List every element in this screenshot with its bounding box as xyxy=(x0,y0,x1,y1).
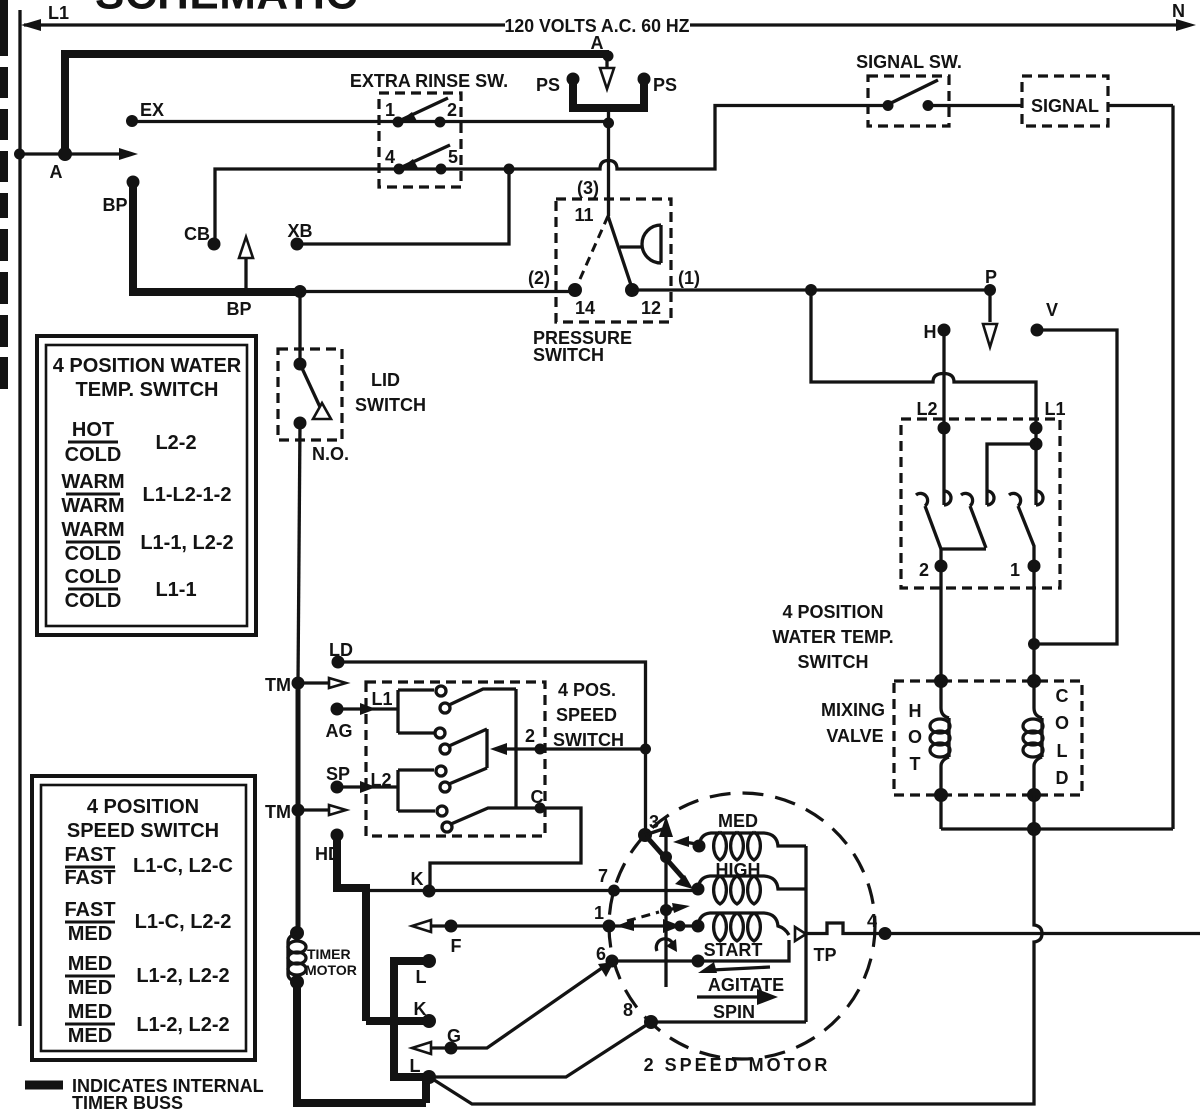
arrow spin xyxy=(697,995,760,998)
svg-text:SP: SP xyxy=(326,764,350,784)
svg-text:L1: L1 xyxy=(48,3,69,23)
wire contact 12 to P xyxy=(632,288,990,291)
speed sw blade row3 xyxy=(449,768,487,784)
svg-text:K: K xyxy=(414,999,427,1019)
wire lid switch stem xyxy=(298,292,301,365)
lid switch bottom contact xyxy=(294,417,307,430)
terminal V xyxy=(1031,324,1044,337)
node rinse output junction xyxy=(504,164,515,175)
terminal BP xyxy=(127,176,140,189)
pressure switch blade 11-12 xyxy=(608,216,632,288)
wire L1 tap jog xyxy=(987,444,1036,505)
terminal L2 xyxy=(938,422,951,435)
svg-text:MED: MED xyxy=(68,1001,112,1023)
svg-text:6: 6 xyxy=(596,944,606,964)
node C terminal xyxy=(535,803,546,814)
svg-text:12: 12 xyxy=(641,298,661,318)
svg-text:K: K xyxy=(411,869,424,889)
svg-text:WARM: WARM xyxy=(61,495,124,517)
wire terminal 2 bar xyxy=(941,549,986,566)
node lid switch junction xyxy=(294,285,307,298)
svg-text:SWITCH: SWITCH xyxy=(355,395,426,415)
svg-text:PS: PS xyxy=(653,75,677,95)
node start return xyxy=(692,955,705,968)
svg-text:MED: MED xyxy=(718,811,758,831)
terminal HIGH xyxy=(692,883,705,896)
svg-text:CB: CB xyxy=(184,224,210,244)
svg-text:MED: MED xyxy=(68,1025,112,1047)
svg-text:P: P xyxy=(985,267,997,287)
svg-text:SPIN: SPIN xyxy=(713,1002,755,1022)
wire node 8 line xyxy=(651,1020,806,1023)
arrow TM upper (open) xyxy=(329,678,346,688)
svg-text:V: V xyxy=(1046,300,1058,320)
svg-text:L2: L2 xyxy=(916,399,937,419)
wire C to K xyxy=(430,808,581,891)
node timer motor bottom xyxy=(290,975,304,989)
svg-text:SCHEMATIC: SCHEMATIC xyxy=(95,0,358,19)
svg-text:2 SPEED MOTOR: 2 SPEED MOTOR xyxy=(644,1055,831,1075)
svg-text:N.O.: N.O. xyxy=(312,444,349,464)
box speed switch xyxy=(366,682,545,836)
arrow L1 end xyxy=(21,19,41,31)
svg-text:MED: MED xyxy=(68,953,112,975)
thick buss PS U-shape xyxy=(569,78,644,112)
svg-text:L: L xyxy=(410,1056,421,1076)
wire signal sw to signal xyxy=(928,104,1022,107)
linkage dashes xyxy=(627,912,659,921)
node start tap xyxy=(675,921,686,932)
node shaft lower xyxy=(660,904,672,916)
svg-text:COLD: COLD xyxy=(65,590,122,612)
svg-text:EXTRA RINSE SW.: EXTRA RINSE SW. xyxy=(350,71,508,91)
rotation hook xyxy=(656,939,673,951)
svg-text:8: 8 xyxy=(623,1000,633,1020)
node shaft upper xyxy=(660,851,672,863)
arrow F (open, left) xyxy=(412,920,431,932)
wire F line to start xyxy=(420,924,698,927)
svg-text:WATER TEMP.: WATER TEMP. xyxy=(772,627,893,647)
node PS-EX junction xyxy=(603,118,614,129)
svg-text:F: F xyxy=(451,936,462,956)
svg-text:1: 1 xyxy=(1010,560,1020,580)
blade signal sw xyxy=(891,80,938,103)
svg-text:G: G xyxy=(447,1026,461,1046)
thick buss terminal rail xyxy=(366,957,432,1077)
svg-text:SWITCH: SWITCH xyxy=(798,652,869,672)
svg-text:L1-1, L2-2: L1-1, L2-2 xyxy=(140,532,233,554)
terminal L lower xyxy=(422,1070,436,1084)
svg-text:L1-L2-1-2: L1-L2-1-2 xyxy=(143,484,232,506)
node 1 xyxy=(603,920,616,933)
coil timer motor xyxy=(288,933,297,982)
node TM lower xyxy=(292,804,305,817)
node 8 xyxy=(644,1015,658,1029)
wire L2 pole xyxy=(942,428,945,505)
node water temp branch xyxy=(805,284,817,296)
node 7 xyxy=(608,885,620,897)
svg-text:11: 11 xyxy=(574,205,593,225)
wire V to right and down xyxy=(1034,330,1117,644)
node timer motor top xyxy=(290,926,304,940)
terminal XB xyxy=(291,238,304,251)
coil COLD xyxy=(1034,681,1042,795)
svg-text:C: C xyxy=(1056,686,1069,706)
terminal L1 xyxy=(1030,422,1043,435)
wire PS stem down to pressure switch xyxy=(607,106,610,216)
terminal 1 xyxy=(1028,560,1041,573)
terminal 2 xyxy=(935,560,948,573)
terminal AG xyxy=(331,703,344,716)
box signal sw xyxy=(868,76,949,126)
timer motor rail medium xyxy=(296,683,301,933)
svg-text:L: L xyxy=(416,967,427,987)
wire temp sw 2 down to valve xyxy=(939,566,942,681)
wire TM lower stub xyxy=(298,808,330,811)
svg-text:(2): (2) xyxy=(528,268,550,288)
svg-text:COLD: COLD xyxy=(65,543,122,565)
arrow N end xyxy=(1176,19,1196,31)
motor internal bus right xyxy=(804,846,807,1022)
speed sw blade row2 xyxy=(449,729,487,746)
motor dashed circle xyxy=(609,793,875,1059)
svg-text:VALVE: VALVE xyxy=(826,726,883,746)
wire LD to motor 3 xyxy=(338,662,646,835)
arrow shaft up xyxy=(659,816,673,837)
svg-text:SIGNAL SW.: SIGNAL SW. xyxy=(856,52,962,72)
svg-text:L: L xyxy=(1057,741,1068,761)
valve terminals bottom xyxy=(934,788,948,802)
svg-text:WARM: WARM xyxy=(61,471,124,493)
node PS right xyxy=(638,73,651,86)
wire H down to L2 xyxy=(942,330,945,428)
node 3 xyxy=(638,828,652,842)
svg-text:MOTOR: MOTOR xyxy=(305,962,357,978)
wire AG to L1 pole xyxy=(337,707,398,710)
svg-text:14: 14 xyxy=(575,298,595,318)
svg-text:HOT: HOT xyxy=(72,419,114,441)
svg-text:TIMER BUSS: TIMER BUSS xyxy=(72,1093,183,1111)
valve terminals top xyxy=(934,674,948,688)
speed sw right common xyxy=(514,689,517,808)
blade 1a xyxy=(1018,506,1034,566)
svg-text:AG: AG xyxy=(326,721,353,741)
wire lid switch to timer bus rail xyxy=(298,423,300,683)
speed sw L1 pole bracket xyxy=(398,690,434,733)
thermal protector contact xyxy=(795,927,806,941)
svg-text:LID: LID xyxy=(371,370,400,390)
svg-text:MIXING: MIXING xyxy=(821,700,885,720)
wire CB to rinse 4 line with hop over PS stem xyxy=(215,106,888,245)
terminal K xyxy=(423,885,436,898)
svg-text:1: 1 xyxy=(385,100,395,120)
svg-text:SWITCH: SWITCH xyxy=(533,345,604,365)
svg-text:COLD: COLD xyxy=(65,444,122,466)
wire temp sw 1 down to valve xyxy=(1032,566,1035,681)
wire L to 8 xyxy=(429,1022,651,1077)
svg-text:4 POS.: 4 POS. xyxy=(558,680,616,700)
svg-text:L1-2, L2-2: L1-2, L2-2 xyxy=(136,1014,229,1036)
wire node3 to shaft xyxy=(645,829,663,835)
arrow start tap xyxy=(663,919,681,933)
svg-text:TP: TP xyxy=(813,945,836,965)
svg-text:5: 5 xyxy=(448,147,458,167)
svg-text:4 POSITION: 4 POSITION xyxy=(87,796,199,818)
signal sw contacts xyxy=(883,100,894,111)
svg-text:COLD: COLD xyxy=(65,566,122,588)
wire SP to L2 pole xyxy=(337,785,398,788)
wire valve hot return xyxy=(941,795,1173,829)
terminal START xyxy=(692,920,705,933)
wire K line xyxy=(366,889,698,892)
page edge binder marks xyxy=(0,0,8,389)
throw hook 2b xyxy=(961,493,973,506)
wire TP line with step xyxy=(806,923,1200,934)
arrow BP (open, up) xyxy=(244,258,247,292)
node valve return junction xyxy=(1027,822,1041,836)
box extra rinse sw xyxy=(379,93,461,187)
table water temp switch xyxy=(37,336,256,635)
wire L1-N 120V line xyxy=(24,23,1190,26)
wire lid line to contact 14 xyxy=(300,290,575,293)
svg-text:4 POSITION WATER: 4 POSITION WATER xyxy=(53,355,242,377)
svg-text:4 POSITION: 4 POSITION xyxy=(782,602,883,622)
terminal HD xyxy=(331,829,344,842)
wire 6 line / start return xyxy=(612,940,789,961)
svg-text:WARM: WARM xyxy=(61,519,124,541)
svg-text:7: 7 xyxy=(598,866,608,886)
terminal LD xyxy=(332,656,345,669)
thick buss HD down xyxy=(333,835,366,1021)
svg-text:2: 2 xyxy=(447,100,457,120)
selector shaft xyxy=(664,830,667,987)
terminal P xyxy=(984,284,996,296)
terminal L upper xyxy=(422,954,436,968)
svg-text:FAST: FAST xyxy=(64,867,115,889)
wire G diagonal to 6 xyxy=(420,961,612,1048)
box signal xyxy=(1022,76,1108,126)
node TM upper xyxy=(292,677,305,690)
svg-text:C: C xyxy=(531,787,544,807)
svg-text:L1: L1 xyxy=(371,689,392,709)
node top bus end xyxy=(58,147,72,161)
pole hook L2 xyxy=(944,491,951,505)
svg-text:4: 4 xyxy=(385,147,395,167)
lid switch blade xyxy=(301,366,320,407)
extra rinse sw contacts 4-5 xyxy=(394,164,405,175)
svg-text:1: 1 xyxy=(594,903,604,923)
node A junction on left rail xyxy=(14,149,25,160)
lid switch top contact xyxy=(294,358,307,371)
arrow P (open, down) xyxy=(988,294,991,322)
terminal K lower xyxy=(422,1014,436,1028)
box water temp switch xyxy=(901,419,1060,588)
thick buss timer motor to L xyxy=(293,982,426,1103)
svg-text:SIGNAL: SIGNAL xyxy=(1031,96,1099,116)
box lid switch xyxy=(278,349,342,440)
terminal F xyxy=(445,920,458,933)
svg-text:TEMP. SWITCH: TEMP. SWITCH xyxy=(76,379,219,401)
svg-text:A: A xyxy=(591,33,604,53)
throw hook 2a xyxy=(916,493,928,506)
node 2 terminal xyxy=(535,744,546,755)
svg-text:XB: XB xyxy=(287,221,312,241)
blade 1-2 xyxy=(401,98,448,120)
svg-text:BP: BP xyxy=(102,195,127,215)
svg-text:L1: L1 xyxy=(1044,399,1065,419)
svg-text:3: 3 xyxy=(649,812,659,832)
svg-text:O: O xyxy=(1055,713,1069,733)
svg-text:L2: L2 xyxy=(370,770,391,790)
winding START xyxy=(698,913,789,935)
svg-text:L1-2, L2-2: L1-2, L2-2 xyxy=(136,965,229,987)
svg-text:MED: MED xyxy=(68,977,112,999)
thick timer buss A: corner to pressure switch xyxy=(61,54,609,158)
svg-text:MED: MED xyxy=(68,923,112,945)
wire speed sw 2 to motor line xyxy=(496,747,646,750)
lid switch actuator triangle xyxy=(313,403,331,419)
wire valve cold down xyxy=(1032,795,1035,829)
wire A feed line xyxy=(20,152,120,155)
svg-text:TM: TM xyxy=(265,802,291,822)
svg-text:H: H xyxy=(924,322,937,342)
svg-text:2: 2 xyxy=(525,726,535,746)
blade 2b xyxy=(970,506,986,548)
svg-text:AGITATE: AGITATE xyxy=(708,975,784,995)
svg-text:START: START xyxy=(704,940,763,960)
speed sw L2 pole bracket xyxy=(398,770,435,811)
svg-text:FAST: FAST xyxy=(64,899,115,921)
svg-text:T: T xyxy=(910,754,921,774)
winding HIGH xyxy=(698,876,806,889)
legend timer buss xyxy=(25,1081,63,1090)
wire TM upper stub xyxy=(298,681,330,684)
blade 2a xyxy=(925,506,941,549)
wire branch to water temp switch with hop over H xyxy=(811,290,1036,428)
wire motor neutral down with hop xyxy=(431,829,1042,1104)
box mixing valve xyxy=(894,681,1082,795)
thick buss BP down and right xyxy=(129,182,300,292)
terminal CB xyxy=(208,238,221,251)
svg-text:BP: BP xyxy=(226,299,251,319)
terminal SP xyxy=(331,781,344,794)
arrow G (open, left) xyxy=(412,1042,431,1054)
pole hook mid xyxy=(987,491,994,505)
svg-text:L1-C, L2-C: L1-C, L2-C xyxy=(133,855,233,877)
svg-text:SPEED SWITCH: SPEED SWITCH xyxy=(67,820,219,842)
node L1 tap xyxy=(1030,438,1043,451)
svg-text:PS: PS xyxy=(536,75,560,95)
throw hook 1a xyxy=(1009,493,1021,506)
svg-text:EX: EX xyxy=(140,100,164,120)
wire L1 pole xyxy=(1034,428,1037,505)
svg-text:TM: TM xyxy=(265,675,291,695)
svg-text:(1): (1) xyxy=(678,268,700,288)
pressure switch blade 11-14 (dashed) xyxy=(576,216,608,288)
contact 12 xyxy=(625,283,639,297)
wire EX line xyxy=(132,120,609,123)
pole hook L1 xyxy=(1036,491,1043,505)
svg-text:L1-1: L1-1 xyxy=(155,579,196,601)
table speed switch xyxy=(32,776,255,1060)
node PS left xyxy=(567,73,580,86)
svg-text:LD: LD xyxy=(329,640,353,660)
svg-text:D: D xyxy=(1056,768,1069,788)
svg-text:N: N xyxy=(1172,1,1185,21)
terminal EX xyxy=(126,115,138,127)
svg-text:FAST: FAST xyxy=(64,844,115,866)
svg-text:2: 2 xyxy=(919,560,929,580)
arrow A line xyxy=(119,148,138,160)
speed sw contact rings xyxy=(436,686,446,696)
node speed sw 2 junction xyxy=(640,744,651,755)
terminal MED xyxy=(693,840,706,853)
svg-text:(3): (3) xyxy=(577,178,599,198)
contact 14 xyxy=(568,283,582,297)
blade node3 to high (thick arrow) xyxy=(646,836,684,879)
speed sw blade row1 xyxy=(449,689,516,705)
svg-text:SPEED: SPEED xyxy=(556,705,617,725)
node 6 xyxy=(606,955,619,968)
coil HOT xyxy=(941,681,949,795)
svg-text:A: A xyxy=(50,162,63,182)
arrow blade at node 1 (left) xyxy=(616,919,634,931)
node 4 xyxy=(879,927,892,940)
extra rinse sw contacts 1-2 xyxy=(393,117,404,128)
svg-text:O: O xyxy=(908,727,922,747)
speed sw mid common xyxy=(485,729,488,768)
svg-text:L1-C, L2-2: L1-C, L2-2 xyxy=(135,911,232,933)
svg-text:H: H xyxy=(909,701,922,721)
svg-text:TIMER: TIMER xyxy=(307,946,351,962)
spur MED arrow xyxy=(684,842,697,844)
node V junction on line 1 xyxy=(1028,638,1040,650)
winding MED xyxy=(699,833,806,846)
speed sw blade row4 xyxy=(451,808,516,824)
terminal H xyxy=(938,324,951,337)
terminal G xyxy=(445,1042,458,1055)
svg-text:L2-2: L2-2 xyxy=(155,432,196,454)
box pressure switch xyxy=(556,199,671,322)
pressure switch diaphragm xyxy=(620,225,661,263)
arrow TM lower (open) xyxy=(329,805,346,815)
svg-text:SWITCH: SWITCH xyxy=(553,730,624,750)
svg-text:4: 4 xyxy=(867,911,877,931)
wire signal to right rail xyxy=(1108,106,1173,830)
blade 4-5 xyxy=(402,145,450,167)
arrow A into pressure switch (open, down) xyxy=(605,58,608,70)
arrow agitate xyxy=(712,967,770,970)
wire XB line xyxy=(297,169,509,244)
wire left rail xyxy=(18,10,21,1026)
arrow shaft lower right xyxy=(666,908,678,910)
